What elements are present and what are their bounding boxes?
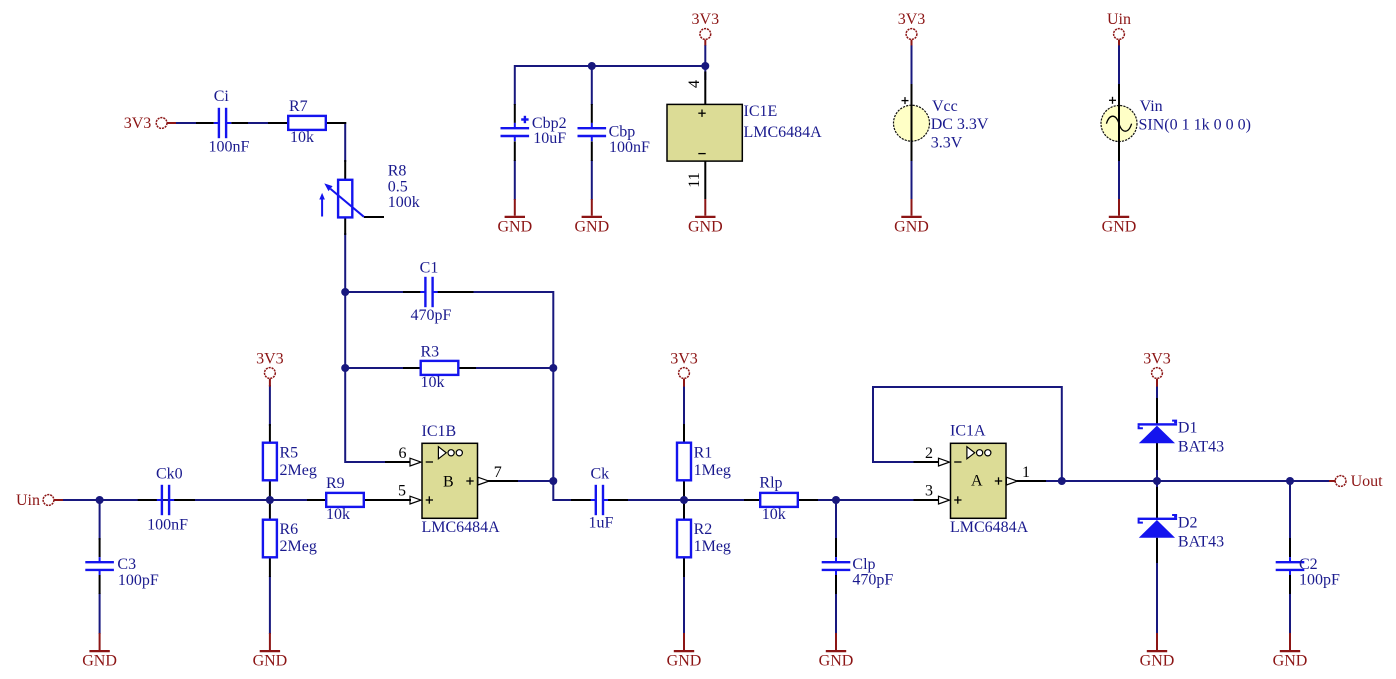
node D junction Rlp/Clp/IC1A pin3 — [832, 496, 840, 504]
resistor Rlp 10k — [744, 475, 818, 523]
diode D1 BAT43 (Schottky to 3V3) — [1138, 398, 1225, 470]
svg-text:1: 1 — [1022, 464, 1030, 481]
svg-text:10k: 10k — [762, 506, 786, 523]
wire C1 row (tap at 345,292 to right rail) — [345, 292, 553, 368]
junction R8/R3 — [341, 364, 349, 372]
ground symbol below Vin — [1102, 199, 1137, 236]
op-amp power block IC1E (LMC6484A supply pins) — [667, 72, 742, 200]
terminal 3V3 above bypass bus — [692, 11, 720, 46]
svg-text:GND: GND — [574, 219, 609, 236]
svg-text:GND: GND — [1140, 653, 1175, 670]
ground symbol below R6 — [253, 633, 288, 670]
svg-text:6: 6 — [399, 445, 407, 462]
wire Clp branch down — [835, 500, 837, 540]
capacitor Ck0 100nF — [138, 465, 195, 533]
capacitor Ck 1uF — [571, 465, 628, 531]
svg-text:IC1B: IC1B — [422, 423, 457, 440]
svg-text:R6: R6 — [280, 521, 299, 538]
terminal Uin (left input) — [16, 492, 63, 509]
ground symbol below Vcc — [894, 199, 929, 236]
svg-text:GND: GND — [688, 219, 723, 236]
svg-text:D1: D1 — [1178, 419, 1198, 436]
svg-text:R8: R8 — [388, 162, 407, 179]
junction IC1B output — [549, 477, 557, 485]
wire Rlp to node C (Clp node) to IC1A pin 3 — [817, 499, 914, 501]
svg-text:10k: 10k — [290, 129, 314, 146]
svg-text:3: 3 — [925, 483, 933, 500]
svg-text:10k: 10k — [421, 374, 445, 391]
node C junction R1/R2/Ck/Rlp — [680, 496, 688, 504]
wire IC1B output net: pin7 to vertical rail down to Ck — [517, 368, 581, 500]
junction R8/C1 — [341, 288, 349, 296]
svg-text:R9: R9 — [326, 475, 345, 492]
svg-text:1Meg: 1Meg — [694, 538, 731, 555]
svg-text:Ck0: Ck0 — [156, 465, 183, 482]
svg-text:GND: GND — [82, 653, 117, 670]
node B junction R5/R6/Ck0/R9 — [266, 496, 274, 504]
svg-text:2Meg: 2Meg — [280, 538, 317, 555]
resistor R3 10k (feedback) — [403, 343, 476, 391]
svg-text:GND: GND — [667, 653, 702, 670]
svg-text:100nF: 100nF — [147, 517, 188, 534]
terminal 3V3 above R5 — [256, 351, 284, 387]
ground symbol below C2 — [1273, 633, 1308, 670]
svg-text:Uout: Uout — [1351, 473, 1384, 490]
op-amp IC1A (LMC6484A section A) — [914, 443, 1047, 518]
resistor R5 2Meg — [263, 424, 317, 497]
svg-text:Uin: Uin — [1107, 11, 1131, 28]
svg-text:100nF: 100nF — [208, 139, 249, 156]
svg-text:10k: 10k — [326, 506, 350, 523]
resistor R9 10k — [307, 475, 411, 523]
node A junction Uin/C3/Ck0 — [96, 496, 104, 504]
wire Vcc source column — [911, 45, 913, 200]
svg-text:IC1A: IC1A — [950, 423, 986, 440]
svg-text:LMC6484A: LMC6484A — [950, 519, 1029, 536]
voltage source Vin SIN — [1101, 84, 1251, 161]
svg-text:GND: GND — [1102, 219, 1137, 236]
svg-text:Clp: Clp — [852, 556, 875, 573]
wire R7 to R8 (corner at 345,123) — [326, 123, 345, 162]
svg-text:470pF: 470pF — [852, 572, 893, 589]
ground symbol below IC1E — [688, 199, 723, 236]
wire 3V3 lead above R1 — [683, 385, 685, 426]
svg-text:3V3: 3V3 — [256, 351, 284, 368]
terminal Uout (right output) — [1329, 473, 1383, 490]
wire Ci to R7 — [247, 122, 270, 124]
svg-text:5: 5 — [398, 483, 406, 500]
potentiometer R8 100k (0.5) — [319, 160, 419, 235]
terminal 3V3 above Vcc — [898, 11, 926, 46]
svg-text:Uin: Uin — [16, 492, 40, 509]
capacitor C1 470pF (feedback) — [403, 260, 474, 325]
svg-text:4: 4 — [686, 80, 703, 88]
ground symbol below R2 — [667, 633, 702, 670]
svg-text:7: 7 — [494, 464, 502, 481]
svg-text:GND: GND — [894, 219, 929, 236]
terminal 3V3 above D1 — [1143, 351, 1171, 387]
wire C2 to GND segment — [1289, 593, 1291, 634]
svg-text:100k: 100k — [388, 194, 420, 211]
wire R6 to GND segment — [269, 576, 271, 634]
svg-text:3V3: 3V3 — [670, 351, 698, 368]
wire net N1 Uin input rail (Uin terminal to R9 and C3) — [62, 499, 307, 501]
wire Vin source column — [1118, 45, 1120, 200]
svg-text:100pF: 100pF — [1299, 572, 1340, 589]
junction IC1A output/feedback — [1058, 477, 1066, 485]
ground symbol below Cbp — [574, 199, 609, 236]
svg-text:C2: C2 — [1299, 556, 1318, 573]
wire D2 to GND segment — [1156, 562, 1158, 634]
svg-text:R2: R2 — [694, 521, 713, 538]
svg-text:LMC6484A: LMC6484A — [744, 124, 823, 141]
wire IC1A feedback loop pin2 to output — [873, 387, 1062, 481]
svg-text:3V3: 3V3 — [124, 115, 152, 132]
svg-text:C3: C3 — [117, 556, 136, 573]
wire C2 branch down — [1289, 481, 1291, 540]
svg-text:GND: GND — [1273, 653, 1308, 670]
ground symbol below D2 — [1140, 633, 1175, 670]
wire C3 branch from node A down to C3 — [99, 500, 101, 540]
wire IC1A output net to D1/D2 node, C2 node and Uout — [1045, 480, 1330, 482]
terminal Uin above Vin — [1107, 11, 1131, 46]
svg-text:SIN(0 1 1k 0 0 0): SIN(0 1 1k 0 0 0) — [1139, 117, 1251, 134]
wire top bypass bus 3V3 to Cbp2/Cbp/IC1E pin4 — [515, 45, 706, 105]
svg-text:IC1E: IC1E — [744, 103, 778, 120]
svg-text:Vin: Vin — [1140, 98, 1163, 115]
svg-text:Cbp: Cbp — [609, 124, 636, 141]
wire R2 to GND segment — [683, 576, 685, 634]
svg-text:0.5: 0.5 — [388, 178, 408, 195]
svg-text:GND: GND — [253, 653, 288, 670]
resistor R7 10k — [268, 98, 346, 146]
capacitor C2 100pF — [1276, 538, 1340, 594]
capacitor Clp 470pF — [822, 538, 894, 594]
svg-text:GND: GND — [819, 653, 854, 670]
svg-text:3V3: 3V3 — [898, 11, 926, 28]
svg-text:1uF: 1uF — [589, 514, 614, 531]
ground symbol below C3 — [82, 633, 117, 670]
svg-text:100nF: 100nF — [609, 139, 650, 156]
svg-text:D2: D2 — [1178, 514, 1198, 531]
svg-text:R5: R5 — [280, 445, 299, 462]
svg-text:Rlp: Rlp — [759, 475, 782, 492]
svg-text:R7: R7 — [289, 98, 308, 115]
svg-text:Ci: Ci — [214, 88, 230, 105]
resistor R1 1Meg — [677, 424, 731, 497]
wire Cbp to GND segment — [591, 160, 593, 200]
capacitor Cbp 100nF (bypass) — [578, 104, 651, 161]
wire net top-left 3V3 to Ci — [175, 122, 199, 124]
wire R3 row — [345, 367, 553, 369]
svg-text:R1: R1 — [694, 445, 713, 462]
wire 3V3 lead above D1 — [1156, 385, 1158, 400]
svg-text:BAT43: BAT43 — [1178, 439, 1224, 456]
wire D1 bottom to output rail — [1156, 468, 1158, 481]
junction R3/right rail — [549, 364, 557, 372]
wire Ck to node B (R1/R2 divider) — [618, 499, 745, 501]
terminal 3V3 above R1 — [670, 351, 698, 387]
junction D1/D2 on output rail — [1153, 477, 1161, 485]
wire C3 to GND segment — [99, 593, 101, 634]
svg-text:C1: C1 — [420, 260, 439, 277]
resistor R6 2Meg — [263, 503, 317, 577]
junction C2 on output rail — [1286, 477, 1294, 485]
svg-text:A: A — [971, 472, 983, 489]
junction bypass bus at IC1E pin4 — [701, 62, 709, 70]
svg-text:DC 3.3V: DC 3.3V — [931, 116, 989, 133]
junction bypass bus at Cbp — [588, 62, 596, 70]
svg-text:2: 2 — [925, 445, 933, 462]
ground symbol below Clp — [819, 633, 854, 670]
wire Clp to GND segment — [835, 593, 837, 634]
svg-text:R3: R3 — [421, 343, 440, 360]
svg-text:LMC6484A: LMC6484A — [422, 519, 501, 536]
svg-text:BAT43: BAT43 — [1178, 534, 1224, 551]
svg-text:3.3V: 3.3V — [931, 135, 963, 152]
resistor R2 1Meg — [677, 503, 731, 577]
op-amp IC1B (LMC6484A section B) — [366, 443, 518, 518]
svg-text:Ck: Ck — [590, 465, 609, 482]
wire 3V3 lead above R5 — [269, 385, 271, 426]
wire Cbp2 to GND segment — [514, 160, 516, 200]
svg-text:B: B — [443, 473, 454, 490]
wire output rail to D2 — [1156, 481, 1158, 489]
svg-text:Vcc: Vcc — [932, 98, 958, 115]
svg-text:GND: GND — [497, 219, 532, 236]
voltage source Vcc DC 3.3V — [894, 84, 989, 161]
capacitor C3 100pF — [85, 538, 159, 594]
diode D2 BAT43 (Schottky to GND) — [1138, 487, 1225, 563]
ground symbol below Cbp2 — [497, 199, 532, 236]
capacitor Cbp2 10uF (polarized bypass) — [501, 104, 567, 161]
svg-text:1Meg: 1Meg — [694, 462, 731, 479]
svg-text:470pF: 470pF — [411, 307, 452, 324]
wire R8 bottom to IC1B pin 6 vertical rail with C1/R3 taps — [345, 233, 385, 462]
svg-text:3V3: 3V3 — [692, 11, 720, 28]
svg-text:3V3: 3V3 — [1143, 351, 1171, 368]
svg-text:11: 11 — [686, 172, 703, 187]
svg-text:100pF: 100pF — [118, 572, 159, 589]
svg-text:2Meg: 2Meg — [280, 462, 317, 479]
svg-text:10uF: 10uF — [533, 130, 566, 147]
capacitor Ci 100nF — [196, 88, 249, 156]
terminal 3V3 (top-left, Ci input) — [124, 115, 176, 132]
